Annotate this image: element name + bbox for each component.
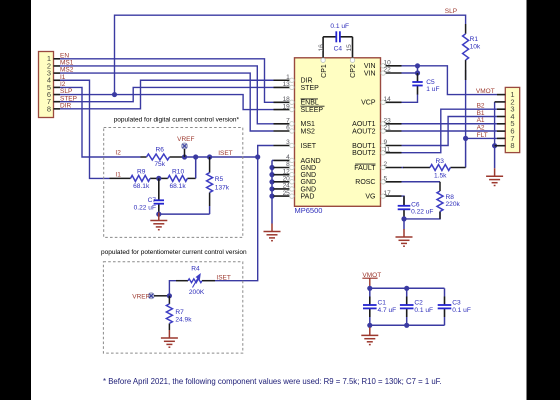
capacitor C5 leads (417, 73, 419, 82)
svg-text:3: 3 (286, 139, 290, 146)
dashed box potentiometer current control (103, 262, 242, 353)
svg-text:FAULT: FAULT (354, 165, 376, 172)
svg-text:0.1 uF: 0.1 uF (330, 23, 349, 30)
wire cap bank bottom rail (370, 324, 445, 326)
J1 pin 6 stub (54, 94, 61, 96)
svg-text:AOUT1: AOUT1 (352, 121, 375, 128)
wire R8 bottom to C6 node (404, 212, 440, 219)
wire EN to ENBL (60, 59, 274, 103)
svg-text:5: 5 (384, 176, 388, 183)
svg-text:200K: 200K (189, 289, 205, 296)
svg-text:68.1k: 68.1k (170, 183, 187, 190)
node GND bus junction pin 20 (269, 179, 274, 184)
svg-text:16: 16 (318, 44, 325, 52)
U1 pin 9 BOUT1 stub (381, 145, 402, 147)
wire I2 down to divider (60, 87, 141, 157)
right letterbox bar (527, 0, 560, 400)
U1 pin 3 ISET stub (274, 145, 295, 147)
wire AGND stub (272, 159, 274, 161)
svg-text:23: 23 (384, 118, 392, 125)
U1 pin 25 PAD stub (274, 195, 295, 197)
U1 pin 1 DIR stub (274, 79, 295, 81)
svg-text:C1: C1 (378, 300, 387, 307)
svg-text:B1: B1 (477, 110, 485, 117)
svg-text:CP2: CP2 (350, 64, 357, 78)
wire C7 R5 ground row (159, 213, 210, 215)
resistor R7 leads (168, 296, 170, 304)
J1 pin 1 stub (54, 58, 61, 60)
node VIN junction top (415, 63, 420, 68)
svg-text:11: 11 (384, 146, 391, 153)
svg-text:13: 13 (283, 81, 291, 88)
capacitor C6 leads (403, 196, 405, 206)
svg-text:VREF: VREF (177, 136, 194, 143)
wire FAULT pin to R3 (402, 167, 404, 169)
U1 pin 8 GND stub (274, 167, 295, 169)
U1 pin 14 VCP stub (381, 101, 402, 103)
svg-text:B2: B2 (477, 103, 485, 110)
U1 pin 22 VIN stub (381, 72, 402, 74)
connector J1 (control side) (39, 52, 54, 118)
U1 pin 12 GND stub (274, 174, 295, 176)
svg-text:137k: 137k (215, 185, 230, 192)
wire BOUT1 to B1 (402, 117, 498, 146)
svg-text:BOUT2: BOUT2 (352, 150, 375, 157)
wire pin8 to ground (494, 146, 496, 169)
svg-text:BOUT1: BOUT1 (352, 143, 375, 150)
node C6 ground junction (401, 216, 406, 221)
resistor R7 (166, 304, 172, 324)
svg-text:AGND: AGND (301, 158, 321, 165)
svg-text:C3: C3 (452, 300, 461, 307)
capacitor C4 leads (323, 36, 336, 38)
wire R10 riser to ISET (195, 157, 197, 178)
svg-text:MS2: MS2 (301, 128, 316, 135)
wire MS2 to MS2 pin (60, 73, 274, 131)
svg-text:populated for digital current: populated for digital current control ve… (114, 116, 240, 123)
potentiometer R4 wiper arrow (193, 274, 201, 287)
wire GND stub pin 12 (272, 174, 274, 176)
U1 pin 18 ENBL stub (274, 101, 295, 103)
resistor R3 (430, 165, 450, 171)
wire BOUT2 to B2 (402, 109, 498, 153)
node GND bus junction pin 8 (269, 165, 274, 170)
op-amp U1 MP6500 driver IC body (295, 58, 381, 207)
VREF symbol (pot box) (148, 293, 154, 299)
svg-text:MS2: MS2 (60, 67, 74, 74)
J2 pin 5 stub (497, 123, 505, 125)
svg-text:I2: I2 (60, 81, 66, 88)
svg-text:8: 8 (286, 161, 290, 168)
U1 pin 13 STEP stub (274, 86, 295, 88)
J1 pin 2 stub (54, 65, 61, 67)
node VIN junction bottom (415, 70, 420, 75)
svg-text:1 uF: 1 uF (426, 86, 439, 93)
wire cap bank top rail (370, 287, 445, 289)
wire ISET riser to potentiometer box (215, 157, 258, 281)
svg-text:ENBL: ENBL (301, 100, 319, 107)
potentiometer R4 leads (202, 280, 215, 282)
svg-text:R7: R7 (175, 309, 184, 316)
svg-text:220k: 220k (446, 201, 461, 208)
node VREF R4 R7 junction (167, 293, 172, 298)
svg-text:DIR: DIR (60, 102, 72, 109)
wire SLP top net (115, 15, 466, 94)
svg-text:STEP: STEP (301, 85, 320, 92)
wire VREF lead (184, 149, 186, 157)
svg-text:A2: A2 (477, 125, 485, 132)
U1 pin 5 ROSC stub (381, 181, 402, 183)
svg-text:9: 9 (384, 139, 388, 146)
left letterbox bar (0, 0, 31, 400)
wire GND stub pin 25 (272, 195, 274, 197)
ground below C1 (361, 327, 378, 344)
node FLT junction (463, 136, 468, 141)
wire FLT net (466, 70, 497, 138)
svg-text:0.1 uF: 0.1 uF (452, 307, 471, 314)
svg-text:17: 17 (384, 190, 392, 197)
svg-text:C6: C6 (411, 201, 420, 208)
J2 pin 3 stub (497, 108, 505, 110)
node bottom rail C1 (367, 323, 372, 328)
capacitor C1 leads (369, 288, 371, 296)
svg-text:C5: C5 (426, 79, 435, 86)
wire MS1 to MS1 pin (60, 66, 274, 124)
svg-text:SLEEP: SLEEP (301, 107, 324, 114)
svg-text:VREF: VREF (132, 294, 149, 301)
svg-text:VMOT: VMOT (476, 88, 495, 95)
resistor R1 (463, 34, 469, 60)
svg-text:SLP: SLP (60, 88, 72, 95)
U1 pin 7 MS1 stub (274, 123, 295, 125)
wire AOUT1 to A1 (402, 123, 498, 125)
U1 pin 23 AOUT1 stub (381, 123, 402, 125)
J1 pin 5 stub (54, 86, 61, 88)
U1 pin 24 GND stub (274, 188, 295, 190)
capacitor C7 leads (158, 178, 160, 200)
svg-text:VIN: VIN (364, 63, 376, 70)
U1 pin 4 AGND stub (274, 159, 295, 161)
svg-text:STEP: STEP (60, 95, 77, 102)
svg-text:24: 24 (283, 183, 291, 190)
node SLP junction (112, 92, 117, 97)
U1 pin 16 CP1 stub (322, 37, 324, 58)
wire GND stub pin 8 (272, 167, 274, 169)
node top rail C1 (367, 286, 372, 291)
J2 pin 2 stub (495, 101, 506, 103)
ground below C6 (396, 229, 413, 246)
J1 pin 7 stub (54, 101, 61, 103)
svg-text:MP6500: MP6500 (295, 206, 323, 215)
node GND bus junction pin 24 (269, 186, 274, 191)
svg-text:8: 8 (47, 104, 51, 113)
wire GND stub pin 24 (272, 188, 274, 190)
wire C6 to ground (403, 219, 405, 230)
svg-text:EN: EN (60, 52, 69, 59)
svg-text:R6: R6 (155, 146, 164, 153)
svg-text:VCP: VCP (361, 100, 376, 107)
wire AOUT2 to A2 (402, 130, 498, 132)
capacitor C2 leads (406, 288, 408, 296)
svg-text:ISET: ISET (218, 150, 232, 157)
svg-text:14: 14 (384, 96, 392, 103)
svg-text:GND: GND (301, 186, 317, 193)
VMOT power stub (362, 277, 377, 279)
U1 pin 20 GND stub (274, 181, 295, 183)
svg-text:2: 2 (384, 161, 388, 168)
svg-text:21: 21 (384, 125, 392, 132)
J1 pin 4 stub (54, 79, 61, 81)
svg-text:VG: VG (365, 194, 375, 201)
svg-text:I2: I2 (115, 150, 121, 157)
ground below R7 (161, 330, 178, 347)
wire ISET row in box (185, 156, 210, 158)
resistor R9 (131, 175, 151, 181)
capacitor C5 (412, 82, 422, 86)
node R5 junction (207, 154, 212, 159)
node VREF junction (182, 154, 187, 159)
resistor R1 leads (465, 24, 467, 34)
svg-text:ROSC: ROSC (355, 179, 375, 186)
node GND bus junction pin 25 (269, 194, 274, 199)
svg-text:R4: R4 (191, 266, 200, 273)
capacitor C6 (398, 206, 411, 210)
svg-text:15: 15 (346, 44, 353, 52)
J2 pin 7 stub (497, 137, 505, 139)
J2 pin 8 stub (495, 145, 506, 147)
svg-text:12: 12 (283, 168, 291, 175)
svg-text:0.22 uF: 0.22 uF (134, 205, 156, 212)
svg-text:populated for potentiometer cu: populated for potentiometer current cont… (101, 249, 247, 256)
svg-text:10k: 10k (470, 44, 481, 51)
wire GND bus (271, 160, 273, 223)
svg-text:ISET: ISET (216, 274, 230, 281)
potentiometer R4 (188, 279, 202, 283)
svg-text:R8: R8 (446, 194, 455, 201)
node top rail C2 (404, 286, 409, 291)
svg-text:4: 4 (286, 154, 290, 161)
svg-text:75k: 75k (154, 161, 165, 168)
svg-text:I1: I1 (115, 171, 121, 178)
resistor R10 (168, 175, 188, 181)
resistor R5 (207, 173, 213, 193)
resistor R8 (437, 191, 443, 212)
node R9 R10 C7 junction (156, 176, 161, 181)
node C7 ground junction (156, 212, 161, 217)
svg-text:24.9k: 24.9k (175, 317, 192, 324)
wire ISET net from divider to pin 3 and pot (210, 146, 274, 158)
svg-text:CP1: CP1 (321, 64, 328, 78)
svg-text:FLT: FLT (477, 132, 488, 139)
resistor R8 leads (439, 212, 441, 219)
resistor R5 leads (209, 157, 211, 173)
dashed box digital current control (104, 128, 243, 238)
capacitor C3 leads (444, 288, 446, 296)
node R10 junction (193, 154, 198, 159)
svg-text:18: 18 (283, 96, 291, 103)
svg-text:R9: R9 (137, 168, 146, 175)
node GND bus junction pin 12 (269, 172, 274, 177)
svg-text:68.1k: 68.1k (133, 183, 150, 190)
wire right connector pin2 GND riser (494, 102, 496, 146)
svg-text:I1: I1 (60, 74, 66, 81)
svg-text:C4: C4 (334, 45, 343, 52)
ground right connector (486, 168, 503, 185)
J2 pin 1 stub (497, 94, 505, 96)
wire VREF stub to node (154, 295, 169, 297)
svg-text:4.7 uF: 4.7 uF (378, 307, 397, 314)
wire ROSC to R8 (402, 181, 441, 183)
svg-text:R1: R1 (470, 36, 479, 43)
svg-text:MS1: MS1 (301, 121, 316, 128)
U1 pin 21 AOUT2 stub (381, 130, 402, 132)
ground below C7 (150, 213, 167, 230)
U1 pin 15 CP2 stub (352, 37, 354, 58)
svg-text:GND: GND (301, 172, 317, 179)
svg-text:C2: C2 (414, 300, 423, 307)
resistor R3 leads (403, 167, 430, 169)
capacitor C7 (154, 200, 164, 203)
svg-text:VIN: VIN (364, 70, 376, 77)
wire VIN pin22 (402, 72, 418, 74)
svg-text:10: 10 (384, 60, 392, 67)
U1 pin 17 VG stub (381, 195, 402, 197)
wire SLP to SLEEP pin (60, 95, 274, 110)
wire R3 riser to FLT (465, 138, 467, 167)
svg-text:GND: GND (301, 165, 317, 172)
svg-text:0.22 uF: 0.22 uF (411, 208, 433, 215)
svg-text:6: 6 (286, 125, 290, 132)
svg-text:7: 7 (286, 118, 290, 125)
svg-text:1: 1 (286, 74, 290, 81)
svg-text:A1: A1 (477, 117, 485, 124)
wire DIR to DIR pin (60, 80, 274, 109)
svg-text:MS1: MS1 (60, 60, 74, 67)
wire STEP to STEP pin (60, 87, 274, 101)
U1 pin 6 MS2 stub (274, 130, 295, 132)
J1 pin 8 stub (54, 108, 61, 110)
node ISET junction (255, 154, 260, 159)
svg-text:PAD: PAD (301, 194, 315, 201)
wire VG to C6 (402, 196, 405, 206)
svg-text:0.1 uF: 0.1 uF (414, 307, 433, 314)
node pin8 GND junction (492, 143, 497, 148)
wire R4 left lead bend (169, 281, 176, 296)
resistor R10 leads (159, 177, 168, 179)
resistor R6 (147, 154, 170, 160)
svg-text:R3: R3 (435, 158, 444, 165)
J2 pin 6 stub (497, 130, 505, 132)
resistor R6 leads (141, 156, 147, 158)
svg-text:20: 20 (283, 176, 291, 183)
svg-text:C7: C7 (148, 197, 157, 204)
svg-text:25: 25 (283, 190, 291, 197)
capacitor C4 (336, 31, 340, 42)
svg-text:8: 8 (510, 141, 514, 150)
svg-text:R10: R10 (172, 168, 184, 175)
svg-text:ISET: ISET (301, 143, 317, 150)
U1 pin 19 SLEEP stub (274, 109, 295, 111)
svg-text:22: 22 (384, 67, 392, 74)
node bottom rail C2 (404, 323, 409, 328)
wire VIN net to VMOT (402, 66, 498, 95)
svg-text:R5: R5 (215, 176, 224, 183)
J1 pin 3 stub (54, 72, 61, 74)
svg-text:DIR: DIR (301, 78, 313, 85)
svg-text:AOUT2: AOUT2 (352, 128, 375, 135)
capacitor C3 (438, 305, 452, 308)
svg-text:1.5k: 1.5k (434, 173, 447, 180)
R8 top lead (439, 182, 441, 191)
svg-text:19: 19 (283, 103, 291, 110)
capacitor C2 (400, 305, 414, 308)
wire VCP to C5 (402, 94, 418, 102)
wire I1 down to divider (60, 80, 110, 178)
connector J2 (motor side) (505, 87, 519, 152)
U1 pin 2 FAULT stub (381, 167, 402, 169)
svg-text:* Before April 2021, the follo: * Before April 2021, the following compo… (103, 377, 442, 386)
capacitor C1 (363, 305, 377, 308)
U1 pin 11 BOUT2 stub (381, 152, 402, 154)
wire GND stub pin 20 (272, 181, 274, 183)
J2 pin 4 stub (497, 116, 505, 118)
wire VIN junction riser (417, 66, 419, 73)
svg-text:GND: GND (301, 179, 317, 186)
U1 pin 10 VIN stub (381, 65, 402, 67)
ground IC GND bus (264, 224, 281, 241)
VREF symbol (digital box) (181, 143, 187, 149)
resistor R9 leads (110, 177, 131, 179)
svg-text:SLP: SLP (445, 8, 457, 15)
